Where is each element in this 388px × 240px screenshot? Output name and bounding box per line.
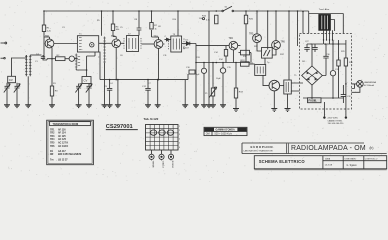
wire vertical 157.7 [157, 80, 159, 105]
external antenna terminal [1, 42, 7, 59]
capacitor C17 electrolytic [220, 63, 225, 105]
svg-text:TR4: TR4 [50, 138, 55, 141]
wire vertical TR5 feed [256, 11, 258, 34]
svg-text:VERDE: VERDE [151, 161, 153, 169]
wire vertical feed TR1 [44, 11, 50, 58]
capacitor C2 electrolytic [65, 56, 78, 61]
capacitor C28 [304, 44, 310, 52]
coil hatch T1 secondary right [103, 37, 106, 64]
wire transformer frame right [342, 14, 344, 34]
svg-text:AC 132 K: AC 132 K [58, 145, 69, 148]
wire AF bus [196, 62, 250, 64]
mains transformer [309, 8, 344, 31]
svg-text:GAMMA D'ONDA: GAMMA D'ONDA [216, 129, 235, 132]
ground R18 [233, 109, 239, 112]
wire lamp return [352, 87, 360, 92]
ground TR7 [271, 109, 277, 112]
transistor TR2 [111, 36, 120, 48]
pcb terminal 2 [159, 150, 164, 159]
wire AGC bus [99, 52, 188, 80]
svg-text:LB 12 27: LB 12 27 [58, 160, 68, 162]
wire TR7 to output transformer [280, 85, 284, 87]
svg-text:TR6: TR6 [50, 146, 55, 148]
resistor R14 [224, 46, 227, 63]
mains terminal 2 [345, 116, 347, 118]
capacitor C31 electrolytic [330, 40, 335, 98]
wire TR6 to bias box [272, 49, 276, 55]
oscillator coil lower hatch [75, 54, 80, 69]
ground AF 204 [201, 105, 207, 108]
wire AF coupling branch [196, 45, 229, 47]
svg-text:TR2: TR2 [50, 133, 55, 135]
wire T2 to TR3 base [142, 43, 155, 45]
drawing number CS297001 [106, 124, 138, 130]
transistor TR6 [272, 41, 286, 50]
diode AGC [165, 36, 171, 41]
transistor TR4 [229, 38, 238, 50]
trimmer inside T1 [90, 43, 94, 47]
power supply dashed box [300, 34, 352, 110]
wire TR2 collector to T2 [121, 42, 125, 44]
svg-text:ROSSO: ROSSO [171, 161, 173, 169]
output transformer T5 [284, 80, 292, 94]
wire mains lead 2 [345, 109, 347, 116]
wire TR3 collector [163, 40, 185, 44]
svg-text:220V 50Hz: 220V 50Hz [328, 118, 338, 120]
resistor R7 [150, 23, 158, 30]
svg-text:DISEGNATO: DISEGNATO [345, 157, 357, 160]
variable capacitor CV1a [4, 83, 10, 105]
ground 185.2 [182, 105, 188, 108]
svg-text:TR2: TR2 [111, 36, 116, 38]
svg-text:AF 124: AF 124 [58, 132, 66, 135]
svg-text:3: 3 [179, 134, 180, 136]
antenna coil L1 [25, 55, 32, 76]
wire extra branch 338.5 [338, 44, 340, 98]
svg-text:2: 2 [179, 130, 180, 132]
wire T1 secondary ground [76, 68, 86, 76]
lamp LP1 [357, 81, 364, 88]
svg-text:TR6: TR6 [281, 42, 286, 44]
wire transformer secondary leads [324, 30, 333, 44]
capacitor C20 [244, 11, 253, 26]
capacitor C1 [36, 53, 47, 60]
ground P1 [210, 105, 216, 108]
ground CV1a [4, 105, 10, 108]
wire mains lead 1 [323, 102, 325, 116]
wire vertical bias feed [267, 11, 269, 50]
variable capacitor CV1b [14, 83, 20, 105]
wire driver transformer to TR7 [263, 75, 269, 85]
capacitor C12 [142, 80, 151, 105]
pcb terminal 1 [149, 150, 154, 159]
scan noise [1, 1, 388, 182]
svg-text:TR1: TR1 [50, 129, 55, 131]
pcb terminal 3 [168, 150, 173, 159]
transistor TR1 [45, 36, 54, 48]
oscillator coil hatch left [79, 38, 82, 50]
band range table [204, 127, 247, 135]
resistor R4 [111, 24, 119, 31]
svg-text:AA 117: AA 117 [58, 150, 66, 153]
capacitor C5 [137, 28, 142, 30]
svg-text:CV: CV [84, 79, 88, 83]
wire vertical 117.9 [117, 80, 119, 105]
wire TR1 emitter [51, 48, 53, 86]
svg-text:LAMPADINA: LAMPADINA [364, 81, 376, 84]
svg-text:CV: CV [9, 78, 13, 82]
svg-text:TR4: TR4 [229, 38, 234, 40]
ground CV2b [86, 105, 92, 108]
wire lamp feed [352, 84, 357, 89]
svg-text:TRANSISTORI E DIODI: TRANSISTORI E DIODI [53, 123, 79, 126]
svg-text:TR3: TR3 [50, 136, 55, 138]
wire TR5 to bias box [257, 43, 262, 51]
resistor R19 [241, 60, 250, 66]
wire vertical T5 secondary [297, 11, 299, 46]
wire coil bottom ground [27, 76, 29, 105]
svg-text:AA117: AA117 [183, 47, 190, 50]
wire vertical AF 204 [203, 63, 205, 105]
svg-text:5: 5 [179, 143, 180, 145]
capacitor C19 [189, 70, 195, 74]
wire vertical 185.2 [184, 80, 186, 105]
wire vertical feed osc coil [101, 11, 103, 36]
resistor R1 [42, 25, 50, 32]
capacitor C9 [104, 80, 112, 105]
svg-text:68k: 68k [116, 29, 119, 31]
svg-text:LABORATORIO TRANSISTORI: LABORATORIO TRANSISTORI [244, 149, 274, 152]
transistor table [47, 120, 94, 165]
resistor R30 [344, 40, 347, 109]
wire transformer frame left [308, 14, 310, 34]
ground C12 [145, 105, 151, 108]
svg-text:DR: DR [50, 154, 54, 156]
ground C9 [107, 105, 113, 108]
svg-text:AC 125: AC 125 [58, 138, 67, 141]
svg-text:G. Sgavio: G. Sgavio [347, 165, 358, 167]
wire bias box to driver transformer [264, 58, 266, 64]
wire R3 ground [51, 96, 53, 105]
potentiometer P1 [209, 63, 217, 105]
wire vertical feed TR2 [113, 11, 116, 39]
wire secondary distribution [311, 40, 346, 44]
resistor R2 [56, 55, 66, 61]
svg-text:OM: OM [206, 133, 210, 136]
wire vertical feed T2 [138, 11, 140, 36]
wire T1b to TR2 base [99, 42, 112, 44]
capacitor C16 electrolytic [201, 68, 206, 73]
resistor R31 [337, 60, 340, 66]
svg-text:TR1: TR1 [45, 36, 50, 38]
svg-text:1: 1 [179, 126, 180, 128]
wire osc coil return [104, 63, 106, 105]
wire top supply bus left [44, 10, 222, 12]
wire TR3 emitter to bus [158, 48, 160, 79]
resistor R18 [234, 63, 243, 109]
pcb grid [146, 125, 181, 151]
capacitor C30 [322, 44, 328, 76]
svg-text:1k: 1k [155, 29, 157, 31]
svg-text:AF 125: AF 125 [58, 135, 66, 138]
ground output [285, 109, 291, 112]
svg-text:10k: 10k [199, 18, 202, 20]
wire vertical supply into power box [302, 12, 304, 34]
svg-text:Tab. N.122: Tab. N.122 [144, 117, 159, 121]
transistor TR5 [249, 33, 261, 42]
wire power box bottom bus [303, 97, 343, 99]
lamp label [364, 81, 376, 87]
wire antenna loop [12, 55, 27, 76]
wire vertical feed T3 [177, 11, 179, 36]
wire vertical output transformer feed [288, 11, 290, 80]
component value labels [35, 18, 354, 98]
svg-text:14-3-68: 14-3-68 [325, 165, 333, 167]
mains terminal 1 [323, 116, 325, 118]
svg-text:Trasf. Alim.: Trasf. Alim. [319, 8, 330, 11]
fuse label box [308, 98, 322, 103]
svg-text:AF 116: AF 116 [58, 128, 66, 131]
svg-text:TR5: TR5 [249, 33, 254, 35]
ground 117.9 [115, 105, 121, 108]
svg-text:Tm: Tm [50, 160, 54, 162]
svg-text:TR5: TR5 [50, 143, 55, 145]
svg-text:(b): (b) [370, 146, 374, 150]
title block [242, 143, 387, 170]
ground R3 [49, 105, 55, 108]
resistor R17 [238, 46, 251, 63]
wire coil top to C1 [30, 54, 41, 56]
variable capacitor CV2b [86, 84, 92, 105]
svg-text:4,7k: 4,7k [206, 20, 210, 22]
svg-text:SCHEMA ELETTRICO: SCHEMA ELETTRICO [259, 159, 306, 164]
ground 157.7 [155, 105, 161, 108]
wire TR1 collector to T1 [54, 43, 78, 45]
resistor R16 [202, 15, 218, 24]
svg-text:CONTROLLO: CONTROLLO [365, 159, 378, 161]
wire R2 left [47, 59, 56, 60]
pcb terminal labels [151, 161, 173, 169]
svg-text:6: 6 [179, 147, 180, 149]
switch S1 [222, 6, 234, 12]
capacitor C29 [312, 44, 317, 52]
wire detector to volume [192, 44, 197, 105]
diode D1 [185, 39, 192, 45]
variable capacitor CV2a [75, 84, 81, 105]
wire output transformer ground [287, 94, 289, 109]
transistor TR7 [269, 80, 280, 91]
wire vertical TR6 feed [275, 11, 277, 41]
svg-text:TR3: TR3 [154, 36, 159, 38]
svg-text:520 ÷ 1620 Kc/s: 520 ÷ 1620 Kc/s [215, 133, 233, 136]
wire TR4 down [232, 50, 234, 63]
wire vertical feed TR3 [152, 11, 159, 39]
IF transformer T3 [169, 34, 185, 52]
ground coil [25, 105, 31, 108]
svg-text:FUSIB.: FUSIB. [309, 99, 318, 103]
transistor TR3 [154, 36, 163, 48]
resistor R3 [50, 86, 58, 96]
wire TR7 emitter ground [273, 91, 275, 109]
trimmer box CV1 [8, 76, 16, 82]
ground CV2a [76, 105, 82, 108]
svg-text:6V 300mA: 6V 300mA [364, 84, 374, 87]
svg-text:4: 4 [179, 138, 180, 140]
svg-text:2,2k: 2,2k [47, 30, 51, 32]
capacitor C32 [341, 85, 346, 103]
wire C20 branch down [245, 26, 247, 62]
padder capacitor box CV2 [82, 77, 91, 84]
wire output transformer to power box [291, 83, 303, 91]
svg-text:CAMBIO TENS.: CAMBIO TENS. [328, 119, 343, 122]
ground C17 [220, 105, 226, 108]
oscillator transformer T1 loop [77, 34, 98, 52]
mains label [328, 118, 345, 125]
wire osc box down [87, 52, 95, 70]
svg-text:AC 127 K: AC 127 K [58, 142, 69, 145]
IF transformer T2 [124, 33, 141, 51]
driver transformer T4 [250, 63, 266, 76]
svg-text:10µF: 10µF [216, 78, 221, 80]
bridge rectifier [302, 44, 323, 98]
wire TR2 emitter to bus [115, 48, 117, 80]
svg-text:B30 C450 SELENIUM: B30 C450 SELENIUM [58, 153, 81, 156]
wire top supply bus right [234, 10, 309, 12]
wire R19 to driver [249, 63, 255, 65]
wire vertical AF feed [208, 11, 210, 105]
ground CV1b [14, 105, 20, 108]
svg-text:EUROPHON: EUROPHON [251, 145, 274, 149]
bias network box [262, 48, 273, 59]
svg-text:RADIOLAMPADA - OM: RADIOLAMPADA - OM [291, 145, 366, 152]
svg-text:110-140-160-220: 110-140-160-220 [328, 123, 345, 125]
